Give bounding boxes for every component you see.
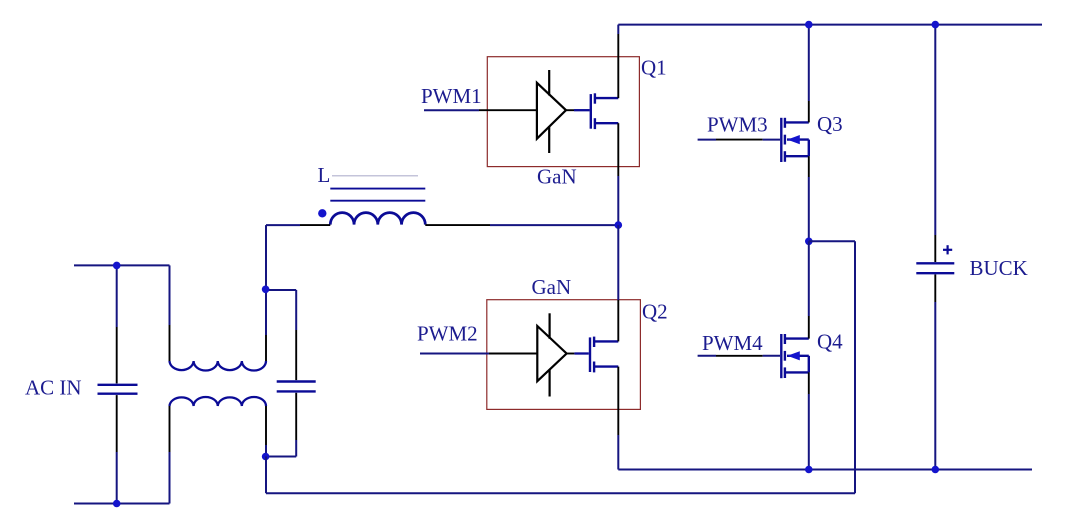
transformer T1 top winding xyxy=(170,361,267,371)
junction dot AC top xyxy=(113,262,121,270)
svg-text:Q3: Q3 xyxy=(817,112,843,136)
svg-text:PWM1: PWM1 xyxy=(421,84,482,108)
svg-text:Q4: Q4 xyxy=(817,330,843,354)
inductor L ghost core line xyxy=(332,175,418,177)
wire Q1 source pin xyxy=(617,123,619,225)
junction dot top rail cap xyxy=(932,21,940,29)
junction dot top rail Q3 xyxy=(805,21,813,29)
svg-text:Q1: Q1 xyxy=(641,55,667,79)
wire choke right top vertical to L node xyxy=(265,225,267,361)
junction dot bottom rail Q4 xyxy=(805,466,813,474)
wire Q4 source pin to bottom rail xyxy=(808,372,810,469)
wire bottom rail xyxy=(618,469,1032,471)
transformer T1 bottom winding xyxy=(170,397,267,406)
junction dot bottom rail cap xyxy=(932,466,940,474)
svg-text:PWM2: PWM2 xyxy=(417,322,478,346)
wire return left vertical to choke node xyxy=(265,457,267,494)
red cell box GaN Q2 xyxy=(487,300,641,410)
junction dot Q3-Q4 midpoint xyxy=(805,238,813,246)
wire PWM2 input xyxy=(420,353,537,355)
inductor L phasing dot xyxy=(318,209,326,217)
wire choke right bottom vertical xyxy=(265,406,267,457)
wire AC top-left xyxy=(74,264,170,266)
capacitor C3 plus sign xyxy=(943,245,952,254)
svg-text:PWM3: PWM3 xyxy=(707,113,768,137)
inductor L coil xyxy=(330,213,425,225)
driver buffer U2 xyxy=(537,313,574,396)
wire top rail xyxy=(618,24,1042,26)
svg-text:L: L xyxy=(318,163,331,187)
wire Q3 source pin xyxy=(808,156,810,241)
junction dot half-bridge midpoint xyxy=(615,221,623,229)
transistor Q1 GaN HEMT xyxy=(574,93,618,129)
transistor Q3 NMOS xyxy=(781,118,809,162)
wire choke left top vertical xyxy=(169,265,171,361)
svg-text:PWM4: PWM4 xyxy=(702,331,763,355)
wire midpoint return right vertical xyxy=(854,241,856,493)
junction dot choke-C2 top node xyxy=(262,286,270,294)
wire Q2 source pin to bottom rail xyxy=(617,367,619,470)
svg-text:GaN: GaN xyxy=(537,165,577,189)
junction dot AC bottom xyxy=(113,500,121,508)
capacitor C2 after choke xyxy=(266,290,316,457)
wire Q2 drain pin xyxy=(617,225,619,341)
wire midpoint return bottom horizontal xyxy=(266,492,855,494)
svg-text:GaN: GaN xyxy=(532,275,572,299)
wire Q1 drain pin xyxy=(617,25,619,99)
transistor Q2 GaN HEMT xyxy=(574,337,618,373)
junction dot choke-C2 bottom node xyxy=(262,453,270,461)
wire AC bottom-left xyxy=(74,503,170,505)
capacitor C1 AC input xyxy=(98,265,138,503)
wire Q3 drain pin xyxy=(808,25,810,123)
svg-text:BUCK: BUCK xyxy=(970,256,1028,280)
red cell box GaN Q1 xyxy=(487,57,639,167)
wire PWM4 input xyxy=(698,355,780,357)
svg-text:Q2: Q2 xyxy=(642,300,668,324)
transistor Q4 NMOS xyxy=(781,334,809,378)
wire Q4 drain pin xyxy=(808,241,810,338)
capacitor C3 BUCK output xyxy=(916,25,954,470)
wire choke left bottom vertical xyxy=(169,406,171,504)
wire L to half-bridge midpoint xyxy=(425,224,618,226)
wire midpoint return horizontal xyxy=(809,240,855,242)
wire L node left segment xyxy=(266,224,330,226)
driver buffer U1 xyxy=(537,70,574,153)
svg-text:AC IN: AC IN xyxy=(25,376,82,400)
wire PWM3 input xyxy=(698,139,780,141)
wire PWM1 input xyxy=(424,109,537,111)
inductor L core lines xyxy=(330,189,425,201)
